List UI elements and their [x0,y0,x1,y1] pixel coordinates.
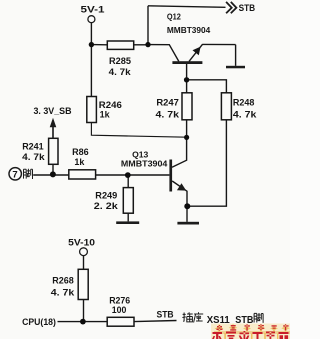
svg-text:R247: R247 [156,98,179,108]
svg-text:4. 7k: 4. 7k [156,109,181,119]
svg-text:Q12: Q12 [167,12,181,22]
svg-text:R285: R285 [109,56,131,66]
svg-text:100: 100 [112,305,127,315]
svg-text:1k: 1k [100,110,111,120]
svg-text:7: 7 [12,170,17,181]
svg-text:5V-1: 5V-1 [81,5,106,16]
svg-text:R248: R248 [233,98,255,108]
svg-text:STB: STB [239,3,256,14]
svg-text:2. 2k: 2. 2k [94,201,119,211]
svg-text:4. 7k: 4. 7k [233,109,258,119]
svg-text:3. 3V_SB: 3. 3V_SB [34,106,72,116]
svg-text:R268: R268 [52,276,74,286]
svg-text:R86: R86 [72,147,89,157]
svg-text:CPU(18): CPU(18) [22,317,56,327]
svg-text:4. 7k: 4. 7k [109,67,132,77]
svg-text:MMBT3904: MMBT3904 [121,159,168,169]
svg-text:1k: 1k [74,157,85,167]
svg-text:5V-10: 5V-10 [68,237,95,248]
svg-text:4. 7k: 4. 7k [51,287,76,297]
svg-text:MMBT3904: MMBT3904 [167,25,211,35]
svg-text:4. 7k: 4. 7k [22,152,46,162]
svg-text:STB: STB [157,309,175,319]
svg-text:R241: R241 [22,142,44,152]
svg-text:R249: R249 [95,190,117,200]
